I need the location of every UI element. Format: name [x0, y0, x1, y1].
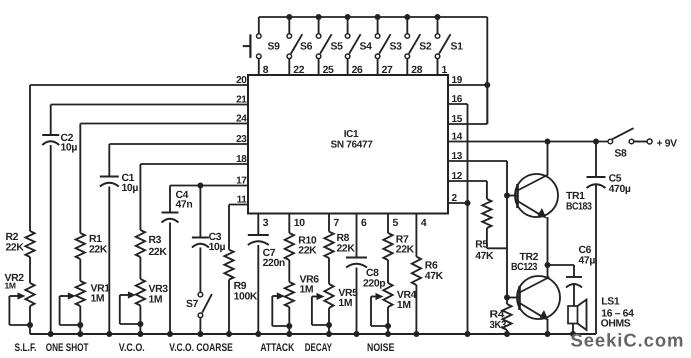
- C7 value label: [263, 248, 285, 269]
- svg-text:22K: 22K: [6, 243, 25, 254]
- wire R9 to bus: [228, 280, 230, 334]
- wire VR6 to ground bus: [288, 307, 290, 334]
- wire VR3 to ground bus: [139, 306, 141, 335]
- wire R4 to bus: [506, 330, 508, 334]
- node V.C.O. label: [119, 342, 145, 354]
- junction rail TR1 collector: [545, 139, 551, 145]
- R7 value label: [396, 235, 415, 256]
- wire pin 12 to R5: [448, 181, 487, 199]
- svg-text:DECAY: DECAY: [305, 342, 333, 354]
- VR3 wiper loop wire: [120, 295, 141, 324]
- transistor TR2 BC123: [517, 276, 560, 321]
- svg-text:S6: S6: [300, 42, 313, 53]
- LS1 value label: [601, 297, 634, 330]
- R5 value label: [475, 240, 494, 263]
- VR6 wiper loop wire: [272, 296, 289, 326]
- junction top bus at S4: [345, 14, 351, 20]
- svg-text:22K: 22K: [396, 245, 415, 256]
- VR6 value label: [300, 275, 320, 296]
- junction R4 bus: [504, 331, 510, 337]
- junction VR3 bus: [137, 331, 143, 337]
- wire C6 branch: [548, 265, 575, 277]
- R4 value label: [490, 310, 507, 332]
- C6 value label: [579, 245, 596, 267]
- VR5 wiper loop wire: [312, 297, 329, 326]
- wire pin 10 to R10: [288, 214, 290, 234]
- svg-text:C5: C5: [609, 174, 622, 185]
- junction VR5 bus: [326, 331, 332, 337]
- svg-text:BC183: BC183: [566, 202, 592, 213]
- junction pin 19 top bus: [484, 82, 490, 88]
- resistor R6: [412, 257, 421, 285]
- VR4 wiper loop wire: [371, 297, 388, 327]
- speaker LS1: [568, 300, 587, 331]
- VR2 wiper loop wire: [9, 296, 30, 325]
- junction R9 bus: [226, 331, 232, 337]
- wire C8 to bus: [356, 268, 358, 335]
- svg-text:C8: C8: [366, 268, 379, 279]
- junction pin 2 column bus: [465, 331, 471, 337]
- junction VR3 wiper to track: [137, 321, 143, 327]
- svg-text:1M: 1M: [5, 281, 16, 291]
- svg-text:OHMS: OHMS: [601, 319, 631, 330]
- svg-text:ONE SHOT: ONE SHOT: [46, 342, 89, 354]
- svg-text:IC1: IC1: [344, 129, 359, 140]
- wire pin 2 node to ground bus: [467, 203, 469, 334]
- junction TR2 collector C6 branch: [545, 262, 551, 268]
- svg-text:7: 7: [334, 218, 340, 229]
- wire C5 top: [595, 142, 597, 178]
- wire R1 to VR1: [79, 259, 81, 281]
- svg-text:S1: S1: [451, 42, 464, 53]
- junction C8 bus: [354, 331, 360, 337]
- potentiometer VR6: [285, 282, 294, 307]
- svg-text:R6: R6: [425, 261, 438, 272]
- node ONE SHOT label: [46, 342, 89, 354]
- TR1 label: [566, 191, 592, 213]
- junction top bus at S2: [404, 14, 410, 20]
- svg-text:S7: S7: [186, 299, 199, 310]
- resistor R4: [502, 304, 511, 330]
- TR2 label: [511, 252, 539, 273]
- IC1 label: [330, 129, 373, 151]
- junction TR2 base node: [504, 295, 510, 301]
- node NOISE label: [367, 342, 394, 354]
- svg-text:S4: S4: [360, 42, 373, 53]
- svg-text:10µ: 10µ: [122, 183, 139, 194]
- svg-text:220n: 220n: [263, 258, 285, 269]
- svg-text:22K: 22K: [298, 246, 317, 257]
- VR4 wiper arrow: [371, 293, 384, 300]
- svg-text:R2: R2: [6, 232, 19, 243]
- wire R1 top: [79, 124, 81, 234]
- junction VR4 wiper to track: [385, 323, 391, 329]
- svg-text:1M: 1M: [149, 295, 163, 306]
- junction R6 bus: [413, 331, 419, 337]
- wire pin 11 to R9: [229, 205, 248, 250]
- R8 value label: [337, 233, 356, 255]
- wire R5 bottom to base rail: [487, 228, 507, 248]
- C5 value label: [609, 174, 631, 196]
- VR5 value label: [338, 288, 358, 309]
- pin numbers left side 20 21 24 23 18 17 11: [236, 75, 247, 206]
- capacitor C2: [42, 135, 59, 145]
- junction top bus at S5: [316, 14, 322, 20]
- junction C4 bus: [167, 331, 173, 337]
- junction rail C5: [593, 139, 599, 145]
- wire C7 to bus: [257, 245, 259, 334]
- svg-text:22K: 22K: [89, 245, 108, 256]
- wire R4 top: [506, 298, 508, 305]
- junction top bus at S6: [286, 14, 292, 20]
- svg-text:1M: 1M: [300, 285, 314, 296]
- resistor R5: [482, 199, 491, 228]
- op-amp U1 IC1 SN 76477 body: [248, 75, 448, 214]
- pin numbers top row 8 22 25 26 27 28 1: [263, 65, 448, 76]
- watermark: [571, 330, 685, 351]
- svg-text:C6: C6: [579, 245, 592, 256]
- wire speaker to bus: [572, 324, 574, 335]
- junction C7 bus: [255, 331, 261, 337]
- junction VR5 wiper to track: [326, 322, 332, 328]
- wire pin 24 to R1 column: [80, 123, 248, 125]
- C3 value label: [209, 232, 226, 253]
- junction VR4 bus: [385, 331, 391, 337]
- svg-text:SN 76477: SN 76477: [330, 140, 373, 151]
- C8 value label: [363, 268, 385, 290]
- switch S2: [405, 17, 432, 75]
- svg-text:22K: 22K: [149, 247, 168, 258]
- resistor R7: [383, 233, 392, 260]
- wire pin 15: [448, 123, 487, 125]
- VR1 wiper arrow: [60, 292, 76, 299]
- VR1 value label: [91, 284, 111, 305]
- svg-text:6: 6: [361, 218, 367, 229]
- wire pin 21 to C2: [51, 105, 248, 136]
- wire C2 to bus: [50, 145, 52, 334]
- svg-text:ATTACK: ATTACK: [260, 342, 294, 354]
- svg-text:100K: 100K: [234, 292, 258, 303]
- wire TR2 base: [507, 297, 519, 299]
- junction VR1 wiper to track: [77, 322, 83, 328]
- wire pin 6 to C8: [356, 214, 358, 258]
- potentiometer VR3: [136, 279, 145, 306]
- transistor TR1 BC183: [515, 174, 558, 219]
- wire TR1 emitter to TR2 collector: [547, 217, 549, 277]
- switch S9: [257, 17, 281, 75]
- junction C2 bus: [48, 331, 54, 337]
- VR4 value label: [397, 290, 417, 311]
- resistor R9: [224, 250, 233, 280]
- VR1 wiper loop wire: [60, 296, 81, 325]
- resistor R1: [76, 233, 85, 259]
- svg-text:1M: 1M: [91, 294, 105, 305]
- junction TR1 base: [504, 193, 510, 199]
- svg-text:V.C.O.: V.C.O.: [119, 342, 145, 354]
- junction TR2 emitter bus: [545, 331, 551, 337]
- svg-text:220p: 220p: [363, 279, 385, 290]
- capacitor C8: [346, 258, 367, 268]
- R1 value label: [89, 234, 108, 256]
- wire pin 5 to R7: [387, 214, 389, 234]
- wire C1 to bus: [108, 187, 110, 335]
- node ATTACK label: [260, 342, 294, 354]
- svg-text:S3: S3: [390, 42, 403, 53]
- wire TR1 collector: [547, 142, 549, 176]
- wire R6 to bus: [415, 285, 417, 334]
- wire pin 3 to C7: [257, 214, 259, 236]
- S8 label: [614, 149, 627, 160]
- capacitor C6: [566, 277, 582, 288]
- svg-text:V.C.O. COARSE: V.C.O. COARSE: [169, 342, 233, 354]
- VR5 wiper arrow: [312, 293, 325, 300]
- VR6 wiper arrow: [272, 292, 285, 299]
- svg-text:22K: 22K: [337, 244, 356, 255]
- VR3 wiper arrow: [120, 291, 136, 298]
- switch S3: [375, 17, 402, 75]
- S7 label: [186, 299, 199, 310]
- junction VR2 wiper to track: [27, 322, 33, 328]
- capacitor C3: [192, 238, 209, 248]
- R9 value label: [234, 281, 258, 303]
- wire R2 top: [29, 85, 31, 231]
- svg-text:+ 9V: + 9V: [657, 139, 678, 150]
- junction C1 bus: [106, 331, 112, 337]
- wire R10 to VR6: [288, 260, 290, 282]
- wire pin 18 to R3 column: [140, 163, 248, 165]
- switch S7: [198, 292, 212, 334]
- C2 value label: [61, 133, 78, 154]
- node S.L.F. label: [15, 342, 37, 354]
- wire top supply bus: [259, 16, 488, 18]
- svg-text:1M: 1M: [397, 300, 411, 311]
- R6 value label: [425, 261, 444, 283]
- resistor R3: [136, 230, 145, 257]
- svg-text:TR1: TR1: [566, 191, 585, 202]
- wire VR5 to ground bus: [328, 308, 330, 334]
- potentiometer VR2: [25, 283, 34, 306]
- wire R8 to VR5: [328, 258, 330, 284]
- wire pin 4 to R6: [415, 214, 417, 257]
- wire C3 to S7: [199, 248, 201, 293]
- wire C5 to bus: [595, 185, 597, 335]
- R2 value label: [6, 232, 25, 254]
- R10 value label: [298, 236, 317, 257]
- junction top bus at S1: [435, 14, 441, 20]
- resistor R8: [324, 232, 333, 258]
- junction pin 17 C3 branch: [197, 183, 203, 189]
- svg-text:10: 10: [294, 218, 305, 229]
- svg-text:R4: R4: [490, 310, 505, 321]
- node +9V label: [657, 139, 678, 150]
- junction speaker bus: [570, 331, 576, 337]
- svg-text:47K: 47K: [475, 251, 494, 262]
- wire top bus right drop to pin 19/15: [486, 17, 488, 124]
- VR2 value label: [5, 273, 25, 291]
- wire pin 2: [448, 202, 468, 204]
- svg-text:3K3: 3K3: [490, 320, 507, 331]
- svg-text:3: 3: [263, 218, 269, 229]
- wire R3 to VR3: [139, 257, 141, 279]
- wire base rail vertical: [506, 161, 508, 298]
- wire R2 to VR2: [29, 257, 31, 283]
- svg-text:47K: 47K: [425, 271, 444, 282]
- svg-text:NOISE: NOISE: [367, 342, 394, 354]
- wire R7 to VR4: [387, 260, 389, 283]
- junction top bus at S3: [375, 14, 381, 20]
- wire pin 14 supply rail: [448, 141, 608, 143]
- node V.C.O. COARSE label: [169, 342, 233, 354]
- wire pin 7 to R8: [328, 214, 330, 232]
- pin numbers right side 19 16 15 14 13 12 2: [452, 75, 463, 204]
- svg-text:R3: R3: [149, 235, 162, 246]
- svg-text:R8: R8: [337, 233, 350, 244]
- wire pin 16: [448, 103, 468, 105]
- switch S5: [316, 17, 343, 75]
- wire VR1 to ground bus: [79, 306, 81, 334]
- junction VR1 bus: [77, 331, 83, 337]
- resistor R10: [285, 233, 294, 260]
- svg-text:4: 4: [421, 218, 427, 229]
- wire pin 19 to pin 15: [486, 85, 488, 124]
- resistor R2: [25, 231, 34, 257]
- wire R3 top: [139, 164, 141, 230]
- wire ground bus: [30, 333, 596, 335]
- wire pin 16 down to pin 2 node: [467, 104, 469, 203]
- svg-text:S8: S8: [614, 149, 627, 160]
- svg-text:SeekiC.com: SeekiC.com: [571, 330, 685, 351]
- junction VR6 bus: [286, 331, 292, 337]
- svg-text:1M: 1M: [338, 298, 352, 309]
- switch S1: [435, 17, 463, 75]
- node DECAY label: [305, 342, 333, 354]
- wire TR1 base: [507, 195, 517, 197]
- svg-text:10µ: 10µ: [209, 242, 226, 253]
- switch S6: [287, 17, 313, 75]
- svg-text:47n: 47n: [176, 200, 193, 211]
- svg-text:47µ: 47µ: [579, 256, 596, 267]
- svg-text:470µ: 470µ: [609, 184, 631, 195]
- wire C6 to speaker: [573, 284, 575, 306]
- C1 value label: [122, 173, 139, 194]
- svg-text:5: 5: [393, 218, 399, 229]
- wire pin 20 to R2 column: [30, 84, 248, 86]
- svg-text:BC123: BC123: [511, 262, 538, 273]
- svg-text:VR3: VR3: [149, 284, 169, 295]
- junction pin 2 node: [465, 200, 471, 206]
- svg-text:S5: S5: [331, 42, 344, 53]
- potentiometer VR5: [324, 284, 333, 308]
- switch S4: [345, 17, 372, 75]
- pin numbers bottom row 3 10 7 6 5 4: [263, 218, 427, 229]
- wire TR2 emitter to bus: [547, 319, 549, 334]
- wire VR2 to ground bus: [29, 306, 31, 334]
- junction VR6 wiper to track: [286, 323, 292, 329]
- svg-text:R9: R9: [234, 281, 247, 292]
- C4 value label: [176, 190, 193, 211]
- wire pin 17 to C4 and C3: [170, 186, 248, 213]
- R3 value label: [149, 235, 168, 258]
- wire VR4 to ground bus: [387, 307, 389, 334]
- capacitor C4: [162, 213, 179, 223]
- VR3 value label: [149, 284, 169, 306]
- svg-text:R1: R1: [89, 234, 102, 245]
- svg-text:S9: S9: [268, 42, 281, 53]
- pushbutton plunger of S9: [243, 34, 251, 58]
- capacitor C5: [587, 177, 606, 188]
- switch S8: [608, 128, 652, 144]
- capacitor C1: [100, 177, 119, 187]
- svg-text:LS1: LS1: [601, 297, 620, 308]
- wire C4 to bus: [169, 223, 171, 335]
- VR2 wiper arrow: [9, 292, 25, 299]
- potentiometer VR4: [383, 283, 392, 307]
- junction S7 bus: [197, 331, 203, 337]
- capacitor C7: [248, 235, 269, 245]
- wire pin 23 to C1: [109, 144, 248, 177]
- svg-text:10µ: 10µ: [61, 143, 78, 154]
- wire C3 top: [199, 186, 201, 238]
- wire pin 19: [448, 84, 487, 86]
- potentiometer VR1: [76, 281, 85, 306]
- wire pin 13: [448, 160, 507, 162]
- svg-text:S.L.F.: S.L.F.: [15, 342, 37, 354]
- svg-text:S2: S2: [419, 42, 432, 53]
